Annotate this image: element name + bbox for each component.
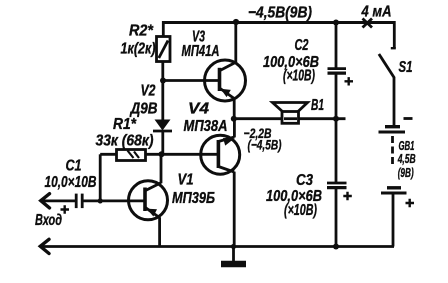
svg-text:4 мА: 4 мА [361,4,392,21]
svg-text:(×10В): (×10В) [284,202,317,219]
svg-text:C2: C2 [295,37,309,54]
svg-text:4,5В: 4,5В [397,151,416,166]
svg-text:(×10В): (×10В) [283,68,315,85]
svg-text:V2: V2 [141,83,156,100]
svg-text:−4,5В(9В): −4,5В(9В) [248,5,312,22]
svg-text:V4: V4 [188,101,209,118]
svg-text:МП41А: МП41А [182,43,220,60]
svg-text:Д9В: Д9В [129,101,158,118]
svg-text:10,0×10В: 10,0×10В [45,174,97,191]
svg-text:C1: C1 [66,158,82,175]
svg-text:МП39Б: МП39Б [172,190,215,207]
svg-text:1к(2к): 1к(2к) [121,41,156,58]
svg-text:Вход: Вход [35,212,62,229]
svg-text:(9В): (9В) [398,165,414,180]
svg-text:R2*: R2* [129,23,154,40]
svg-text:S1: S1 [399,59,413,76]
svg-text:В1: В1 [311,97,324,114]
svg-text:33к (68к): 33к (68к) [96,133,154,150]
svg-text:(−4,5В): (−4,5В) [248,137,282,153]
svg-text:R1*: R1* [113,116,137,133]
svg-text:V1: V1 [178,172,194,189]
svg-text:C3: C3 [296,172,313,189]
svg-text:МП38А: МП38А [184,118,228,135]
